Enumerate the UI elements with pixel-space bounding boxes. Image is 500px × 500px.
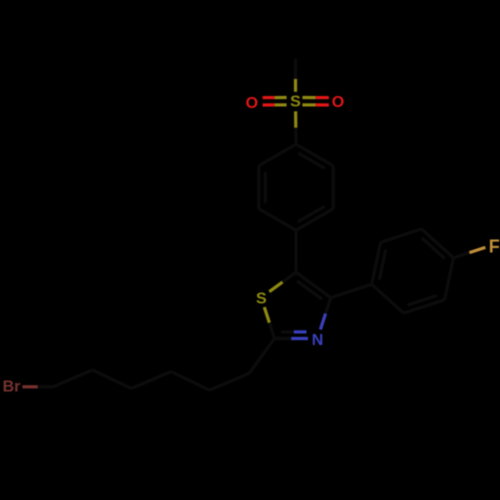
svg-text:N: N: [312, 332, 324, 349]
svg-text:O: O: [332, 94, 344, 111]
svg-text:S: S: [256, 290, 267, 307]
svg-text:F: F: [489, 236, 500, 256]
svg-text:S: S: [290, 94, 301, 111]
svg-text:O: O: [246, 95, 258, 112]
svg-text:Br: Br: [3, 378, 21, 395]
